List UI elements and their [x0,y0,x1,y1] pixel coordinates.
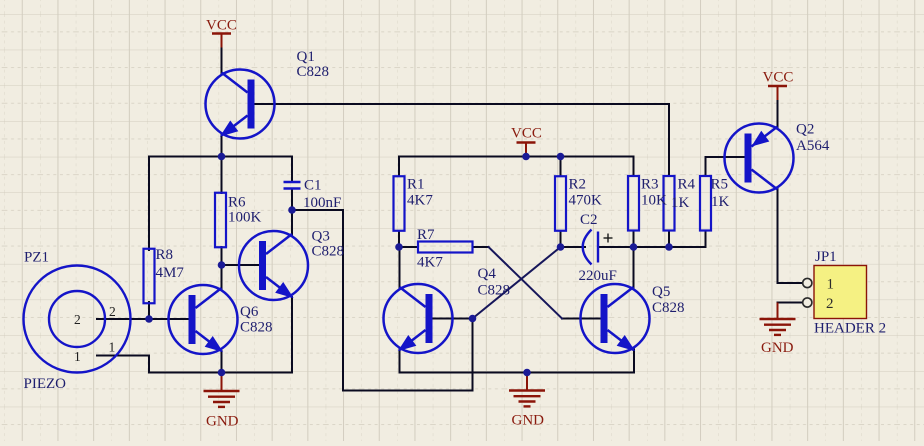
svg-text:R2: R2 [569,177,587,193]
svg-text:Q5: Q5 [652,284,670,300]
svg-text:R5: R5 [711,177,729,193]
junction VCC2 stem [522,153,530,161]
wire R7 left lead [399,246,418,248]
C2 plus sign [604,234,613,243]
wire rail to R8 top [148,157,150,251]
svg-text:R6: R6 [228,195,246,211]
svg-text:220uF: 220uF [579,268,617,284]
transistor Q1 C828 [206,70,275,139]
junction R1/R7/Q4 collector [395,243,403,251]
svg-text:R3: R3 [641,177,659,193]
svg-text:1K: 1K [671,195,690,211]
wire R8 bottom to piezo line [148,302,150,319]
wire bottom-middle ground rail [400,372,635,374]
wire R2 top [560,157,562,177]
junction Q4 base node [469,315,477,323]
ground GND2 [509,391,545,407]
wire R1 bottom to R7 node [398,231,400,247]
wire Q3 emitter down [291,297,293,373]
svg-text:VCC: VCC [511,126,542,142]
wire JP1 pin 2 to GND corner [778,302,803,304]
resistor R3 [628,176,639,231]
wire piezo pin2 to Q6 base [97,318,189,320]
svg-text:1: 1 [827,277,835,293]
JP1 pin 2 open circle [803,298,812,307]
wire diagonal R7 to Q5 base [489,247,563,319]
wire Q6 emitter to ground rail [221,351,223,373]
wire Q1 base to R4 top [253,104,669,176]
svg-text:10K: 10K [641,193,667,209]
svg-text:HEADER 2: HEADER 2 [814,321,886,337]
wire Q5 emitter down [633,350,635,373]
wire left rail node A [149,156,292,158]
wire Q2 emitter to VCC3 [777,100,779,127]
piezo PZ1 inner circle [49,291,105,347]
wire VCC2 stem to rail [525,154,527,157]
piezo PZ1 outer circle [24,266,131,373]
svg-text:GND: GND [512,413,545,429]
wire R5 bottom [705,231,707,248]
svg-text:2: 2 [74,312,81,327]
wire GND1 stem [221,373,223,392]
svg-text:C1: C1 [304,178,322,194]
resistor R4 [664,176,675,231]
svg-text:R8: R8 [156,247,174,263]
wire rail corner to C1 top [291,157,293,182]
svg-text:1K: 1K [711,194,730,210]
wire R6 bottom to Q6 collector [221,247,223,289]
resistor R1 [394,176,405,231]
junction R4 bottom [665,243,673,251]
wire Q4 base lead [433,318,473,320]
svg-text:2: 2 [109,304,116,319]
resistor R2 [555,176,566,231]
wire Q3 base [222,264,260,266]
capacitor C1 [284,182,301,189]
svg-text:PZ1: PZ1 [24,250,49,266]
wire rail to R6 top [221,157,223,194]
junction R8 bottom [145,315,153,323]
svg-text:4M7: 4M7 [156,265,185,281]
transistor Q2 A564 [725,124,794,193]
svg-text:C2: C2 [580,212,598,228]
svg-text:1: 1 [74,349,81,364]
wire R1 top [398,157,400,177]
wire R3 top to rail [633,157,635,177]
wire C2 plus plate to R5 bottom rail [598,246,706,248]
resistor R7 [418,242,473,253]
svg-text:Q6: Q6 [240,304,259,320]
junction rail/Q1e/R6 [218,153,226,161]
resistor R6 [215,193,226,248]
svg-text:JP1: JP1 [815,249,837,265]
wire VCC2 rail [399,156,634,158]
wire diagonal Q4 base to C2 node [473,247,561,319]
svg-text:2: 2 [826,296,834,312]
svg-text:C828: C828 [652,300,685,316]
capacitor C2 (polarized) [583,230,598,265]
junction Q3 base node [218,261,226,269]
transistor Q6 C828 [169,285,238,354]
svg-text:470K: 470K [569,193,603,209]
wire Q2 collector to JP1 pin 1 [778,189,803,283]
junction R2 bottom/C2 [557,243,565,251]
svg-text:Q1: Q1 [297,49,315,65]
wire feedback C1 node to Q4 base [292,210,473,391]
wire C1 bottom to Q3 collector [291,189,293,235]
power VCC2 [517,143,536,157]
svg-text:C828: C828 [297,64,330,80]
svg-text:R1: R1 [407,177,425,193]
wire GND3 stem [777,303,779,320]
wire Q4 collector up to R7 node [399,247,401,288]
junction R2 top [557,153,565,161]
wire R7 right lead [473,246,489,248]
wire Q4 emitter down [399,350,401,373]
transistor Q4 C828 [384,284,453,353]
svg-text:GND: GND [761,340,794,356]
JP1 pin 1 open circle [803,278,812,287]
power VCC3 [768,86,787,100]
junction R3 bottom/Q5 collector [630,243,638,251]
junction GND1 [218,369,226,377]
svg-text:4K7: 4K7 [407,193,433,209]
ground GND3 [760,319,796,335]
wire diagonal end to Q5 base [562,318,602,320]
wire piezo pin1 [97,356,149,373]
transistor Q3 C828 [239,231,308,300]
junction GND2 [523,369,531,377]
wire R2 bottom to C2 node [560,231,562,247]
junction C1 bottom node [288,206,296,214]
svg-text:100K: 100K [228,210,262,226]
connector JP1 HEADER 2 body [814,266,867,319]
svg-text:VCC: VCC [206,18,237,34]
svg-text:C828: C828 [312,244,345,260]
svg-text:R4: R4 [678,177,696,193]
resistor R8 [144,249,155,304]
wire R4 bottom [668,231,670,248]
svg-text:R7: R7 [417,227,435,243]
svg-text:PIEZO: PIEZO [24,376,67,392]
resistor R5 [700,176,711,231]
wire bottom-left ground rail [149,372,292,374]
wire Q1 emitter down to rail [221,135,223,157]
svg-text:Q4: Q4 [478,266,497,282]
wire VCC1 to Q1 collector [221,47,223,73]
svg-text:Q2: Q2 [796,122,814,138]
svg-text:C828: C828 [240,320,273,336]
wire R5 top to Q2 base [706,157,745,176]
svg-text:C828: C828 [478,283,511,299]
svg-text:Q3: Q3 [312,229,330,245]
wire C2 node to curved plate [561,246,586,248]
wire Q5 collector up [633,247,635,288]
power VCC1 [212,34,231,48]
ground GND1 [204,391,240,407]
svg-text:VCC: VCC [763,70,794,86]
svg-text:A564: A564 [796,138,830,154]
wire GND2 stem [526,373,528,391]
svg-text:100nF: 100nF [303,195,341,211]
wire R3 bottom [633,231,635,248]
svg-text:4K7: 4K7 [417,255,443,271]
svg-text:GND: GND [206,414,239,430]
svg-text:1: 1 [109,340,116,355]
transistor Q5 C828 [581,284,650,353]
